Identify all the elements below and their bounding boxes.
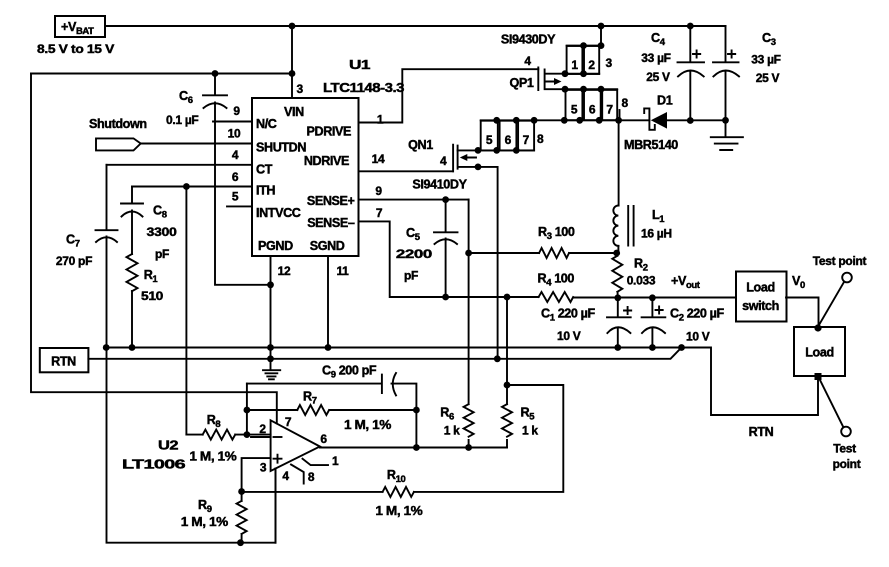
svg-text:2: 2 <box>588 58 595 72</box>
svg-text:4: 4 <box>282 469 289 483</box>
svg-text:3: 3 <box>606 56 613 70</box>
svg-text:1: 1 <box>332 454 339 468</box>
svg-text:Test: Test <box>833 442 856 456</box>
svg-text:5: 5 <box>571 103 578 117</box>
svg-text:pF: pF <box>155 247 169 261</box>
svg-text:7: 7 <box>523 133 530 147</box>
svg-text:Load: Load <box>805 346 833 360</box>
svg-text:RTN: RTN <box>749 425 774 439</box>
svg-text:3300: 3300 <box>147 225 178 239</box>
svg-text:10 V: 10 V <box>686 330 710 344</box>
svg-text:NDRIVE: NDRIVE <box>304 154 349 168</box>
svg-text:Test point: Test point <box>813 254 867 268</box>
svg-text:1 M, 1%: 1 M, 1% <box>375 504 422 518</box>
svg-text:Shutdown: Shutdown <box>89 117 147 131</box>
svg-text:2200: 2200 <box>396 247 433 261</box>
svg-text:SHUTDN: SHUTDN <box>256 141 306 155</box>
svg-text:1 k: 1 k <box>522 424 538 438</box>
svg-text:510: 510 <box>141 289 164 303</box>
svg-text:9: 9 <box>233 104 240 118</box>
svg-text:switch: switch <box>742 299 779 313</box>
svg-text:point: point <box>833 457 861 471</box>
svg-text:33 µF: 33 µF <box>751 53 780 67</box>
svg-text:CT: CT <box>256 163 273 177</box>
svg-text:D1: D1 <box>657 94 673 108</box>
svg-text:0.033: 0.033 <box>627 274 656 288</box>
svg-text:PGND: PGND <box>258 239 293 253</box>
svg-text:SI9410DY: SI9410DY <box>412 178 467 192</box>
svg-text:10: 10 <box>228 127 241 141</box>
svg-text:0.1 µF: 0.1 µF <box>166 113 198 127</box>
svg-text:RTN: RTN <box>51 355 76 369</box>
svg-text:U2: U2 <box>158 439 178 453</box>
svg-text:Load: Load <box>746 281 774 295</box>
svg-text:2: 2 <box>259 422 266 436</box>
svg-text:8.5 V to 15 V: 8.5 V to 15 V <box>37 42 114 56</box>
svg-text:SENSE+: SENSE+ <box>307 194 355 208</box>
svg-text:5: 5 <box>486 133 493 147</box>
svg-text:VIN: VIN <box>284 105 304 119</box>
svg-text:INTVCC: INTVCC <box>256 206 301 220</box>
svg-text:9: 9 <box>375 184 382 198</box>
svg-text:ITH: ITH <box>256 184 275 198</box>
svg-text:PDRIVE: PDRIVE <box>307 125 352 139</box>
svg-text:33 µF: 33 µF <box>641 51 670 65</box>
svg-text:4: 4 <box>232 148 239 162</box>
svg-text:6: 6 <box>589 103 596 117</box>
svg-text:1 M, 1%: 1 M, 1% <box>344 418 391 432</box>
svg-text:6: 6 <box>320 432 327 446</box>
svg-text:7: 7 <box>285 415 292 429</box>
svg-text:1 k: 1 k <box>444 424 460 438</box>
svg-text:25 V: 25 V <box>646 70 670 84</box>
svg-text:MBR5140: MBR5140 <box>624 138 678 152</box>
svg-text:8: 8 <box>537 132 544 146</box>
svg-text:1 M, 1%: 1 M, 1% <box>189 450 236 464</box>
svg-text:12: 12 <box>278 264 291 278</box>
svg-text:3: 3 <box>260 461 267 475</box>
svg-text:pF: pF <box>404 269 418 283</box>
svg-text:3: 3 <box>297 82 304 96</box>
svg-text:8: 8 <box>308 470 315 484</box>
svg-text:QP1: QP1 <box>510 76 534 90</box>
svg-text:25 V: 25 V <box>756 71 780 85</box>
svg-text:4: 4 <box>524 54 531 68</box>
svg-text:SENSE–: SENSE– <box>307 216 355 230</box>
svg-text:QN1: QN1 <box>408 138 433 152</box>
svg-text:6: 6 <box>232 170 239 184</box>
svg-text:LT1006: LT1006 <box>122 458 186 472</box>
svg-text:11: 11 <box>336 264 349 278</box>
svg-text:1: 1 <box>377 113 384 127</box>
svg-text:5: 5 <box>232 190 239 204</box>
svg-text:16 µH: 16 µH <box>641 227 672 241</box>
svg-text:7: 7 <box>376 206 383 220</box>
svg-text:SI9430DY: SI9430DY <box>501 33 556 47</box>
svg-text:6: 6 <box>505 133 512 147</box>
svg-text:8: 8 <box>622 96 629 110</box>
svg-text:U1: U1 <box>349 58 371 72</box>
svg-text:N/C: N/C <box>256 117 277 131</box>
svg-text:10 V: 10 V <box>557 329 581 343</box>
svg-text:270 pF: 270 pF <box>56 254 92 268</box>
svg-text:LTC1148-3.3: LTC1148-3.3 <box>323 81 404 95</box>
svg-text:1 M, 1%: 1 M, 1% <box>181 515 228 529</box>
svg-text:SGND: SGND <box>310 239 345 253</box>
svg-text:4: 4 <box>440 154 447 168</box>
svg-text:1: 1 <box>571 58 578 72</box>
svg-text:7: 7 <box>606 103 613 117</box>
svg-text:14: 14 <box>372 152 385 166</box>
